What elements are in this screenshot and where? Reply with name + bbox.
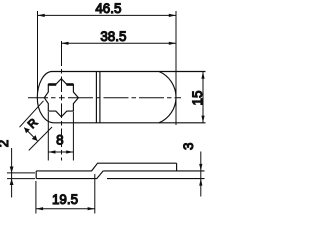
dimension 19.5: dimension line xyxy=(36,208,95,210)
dimension 2: dimension line xyxy=(11,148,13,198)
vertical centerline of hole / extension for dims 38.5 and 8 xyxy=(61,41,63,161)
svg-text:3: 3 xyxy=(181,142,196,149)
dimension 3: dimension line xyxy=(200,152,202,197)
dimension 2: arrowheads (outside) xyxy=(10,167,14,186)
dimension 19.5: left extension line xyxy=(35,181,37,214)
dimension 46.5: right extension line xyxy=(175,11,177,125)
dimension 3: arrowheads (outside) xyxy=(199,164,202,186)
dimension 19.5: right extension line xyxy=(94,174,96,214)
svg-text:38.5: 38.5 xyxy=(100,29,126,44)
dimension 8: dimension line xyxy=(48,151,73,153)
dimension 8: right extension line xyxy=(72,112,74,161)
dimension 8: left extension line xyxy=(47,112,49,161)
svg-text:2: 2 xyxy=(0,140,11,147)
side view: lower strip left end cap xyxy=(35,171,37,179)
side view: upper strip bottom surface + extension for dim 3 xyxy=(103,170,204,172)
dimension 46.5: left extension line xyxy=(37,11,39,96)
bold top-left edge of hole xyxy=(48,83,56,86)
bold top-right edge of hole xyxy=(66,83,73,86)
dimension 38.5: dimension line xyxy=(61,42,176,44)
horizontal centerline of body xyxy=(28,97,181,99)
dimension 15: dimension line xyxy=(202,72,204,123)
cam body right end arc xyxy=(159,72,176,123)
dimension 2: bottom extension stub xyxy=(7,178,35,180)
dimension 15: arrowheads xyxy=(201,72,204,123)
side view: upper strip right end cap xyxy=(176,163,178,171)
dimension R: arrowheads xyxy=(24,128,37,141)
svg-text:15: 15 xyxy=(190,91,205,106)
side view: lower-surface extension line for dim 3 xyxy=(107,178,205,180)
dimension R: extension line A (through circle to hole tip) xyxy=(20,101,44,127)
cam body left rounded end (upper quadrant) xyxy=(37,72,52,98)
bend line 2 (top view) xyxy=(99,72,101,123)
side view: top surface with offset bend xyxy=(36,163,176,171)
svg-text:46.5: 46.5 xyxy=(95,1,121,16)
side view: bottom surface with offset bend xyxy=(36,171,103,179)
cam body top edge + right extension line for dim 15 xyxy=(52,71,206,73)
dimension 46.5: dimension line xyxy=(38,14,177,16)
star-shaped cam hole xyxy=(44,79,78,117)
dimension R: extension line B (long diagonal) xyxy=(29,127,52,150)
cam body left rounded end (lower quadrant) xyxy=(37,98,54,123)
bend line 1 (top view) xyxy=(95,72,97,123)
dimension 38.5: arrowheads xyxy=(61,42,176,45)
dimension 2: top extension stub xyxy=(7,172,35,174)
cam body bottom edge + right extension line for dim 15 xyxy=(54,122,206,124)
dimension 46.5: arrowheads xyxy=(38,14,177,17)
svg-text:8: 8 xyxy=(56,133,63,148)
dimension 8: arrowheads xyxy=(48,150,73,153)
svg-text:19.5: 19.5 xyxy=(52,192,78,207)
dimension 19.5: arrowheads xyxy=(36,207,95,210)
dimension R: dimension line xyxy=(24,128,37,141)
